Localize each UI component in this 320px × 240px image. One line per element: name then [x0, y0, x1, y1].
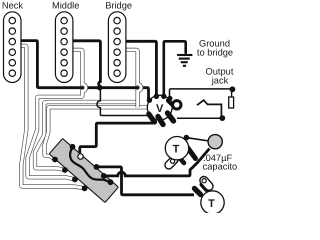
- switch lower lugs: [52, 157, 58, 163]
- wire: volume pot to ground symbol: [164, 41, 186, 96]
- tone1 casing lug wedge: [178, 156, 184, 163]
- ground symbol: [177, 55, 192, 66]
- volume pot V: [147, 94, 181, 125]
- tone pot 2: [195, 175, 225, 214]
- tone2 casing lug wedge: [202, 185, 207, 190]
- output jack contact: [197, 100, 221, 118]
- wire: neck pickup white: [20, 46, 84, 189]
- node: jack tip dot: [230, 86, 236, 92]
- svg-text:T: T: [173, 144, 180, 156]
- svg-text:to bridge: to bridge: [197, 47, 233, 57]
- node: tone1 cap dot: [184, 135, 190, 141]
- wire: middle hot black with hop: [73, 41, 100, 88]
- volume right ear lug: [168, 101, 175, 108]
- tone2 ear lug: [198, 175, 215, 192]
- tone pot 1 body: [165, 137, 188, 160]
- neck pickup: [4, 12, 22, 83]
- tone pot 1: [163, 135, 195, 171]
- wire: output line volume to jack: [170, 89, 233, 98]
- wire: switch to volume white: [35, 102, 138, 170]
- capacitor link to tone1: [186, 138, 209, 141]
- node: volume input dot: [147, 98, 152, 103]
- svg-text:Bridge: Bridge: [105, 0, 132, 10]
- svg-text:V: V: [156, 103, 164, 115]
- node: volume top-right dot: [161, 94, 166, 99]
- tone2 input lug wedge: [195, 189, 201, 195]
- 5-way switch body: [49, 139, 118, 203]
- middle pickup: [55, 12, 73, 83]
- wire: switch common black to volume pot (hopped over): [100, 88, 149, 101]
- svg-text:Middle: Middle: [52, 0, 79, 10]
- wire: bridge hot black: [126, 41, 156, 96]
- node: junction dot at volume lug: [153, 113, 158, 118]
- switch white lug: [78, 154, 83, 159]
- wire: bridge pickup white: [126, 50, 141, 107]
- wire: neck hot black (hopped over): [20, 41, 99, 88]
- wire: common to volume lower lug: [97, 88, 155, 116]
- tone pot 2 body: [201, 191, 224, 214]
- svg-text:jack: jack: [211, 75, 229, 85]
- svg-text:T: T: [208, 198, 215, 210]
- tone1 capacitor lead wedge: [188, 148, 196, 159]
- wire: switch lug to capacitor black (hop over tone2 wire): [104, 149, 210, 176]
- bridge pickup: [108, 12, 126, 83]
- node: jack sleeve dot: [219, 115, 225, 121]
- switch upper lugs: [70, 144, 76, 150]
- svg-text:Neck: Neck: [2, 0, 24, 10]
- volume casing lug wedges: [149, 114, 155, 122]
- node: volume top-left dot: [154, 94, 159, 99]
- capacitor body: [208, 135, 222, 149]
- wire: switch lug A white: [45, 107, 149, 159]
- wire: jack ground line: [177, 117, 222, 119]
- wire: middle pickup white: [28, 50, 86, 180]
- node: junction dot middle/common: [97, 85, 102, 90]
- wire: switch lug to tone2 pot black: [97, 167, 195, 195]
- switch common strip: [70, 147, 110, 182]
- node: volume output dot: [167, 96, 172, 101]
- output jack lug: [231, 89, 233, 97]
- svg-text:capacitor: capacitor: [203, 162, 237, 172]
- tone1 ear lug: [163, 154, 179, 170]
- wire: volume casing to switch black: [80, 123, 153, 153]
